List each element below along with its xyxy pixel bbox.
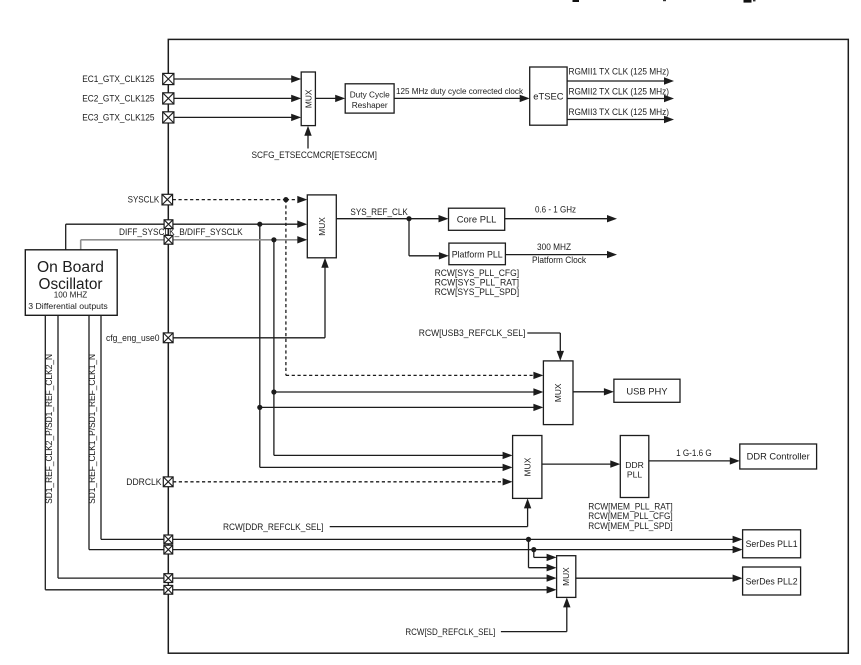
label SYSCLK [128, 193, 160, 204]
svg-text:MUX: MUX [553, 383, 563, 402]
svg-text:3 Differential outputs: 3 Differential outputs [28, 301, 108, 311]
label SCFG_ETSECCMCR[ETSECCM] [252, 149, 377, 160]
block Platform PLL [449, 243, 506, 265]
mux U2 system clock MUX [307, 195, 336, 258]
svg-text:DDR Controller: DDR Controller [747, 452, 810, 462]
svg-text:EC3_GTX_CLK125: EC3_GTX_CLK125 [82, 112, 154, 123]
block Core PLL [449, 208, 505, 230]
wire SYS_REF_CLK from MUX U2 to Core PLL [336, 215, 448, 222]
label 125 MHz duty cycle corrected clock [396, 87, 524, 96]
label 1 G-1.6 G [676, 447, 712, 458]
svg-text:RCW[DDR_REFCLK_SEL]: RCW[DDR_REFCLK_SEL] [223, 521, 323, 532]
svg-text:0.6 - 1 GHz: 0.6 - 1 GHz [535, 204, 576, 215]
wire cfg_eng_use0 select into MUX U2 [173, 258, 329, 338]
svg-text:1 G-1.6 G: 1 G-1.6 G [676, 447, 712, 458]
wire DDR PLL output to DDR Controller [649, 457, 740, 464]
cropped page-header text fragment [573, 0, 756, 3]
mux U1 eTSEC clock MUX [301, 72, 315, 126]
wire SD MUX to SerDes PLL2 [576, 575, 743, 582]
svg-text:SerDes PLL1: SerDes PLL1 [746, 539, 798, 549]
svg-text:PLL: PLL [627, 470, 643, 480]
pad SD1_REF_CLK2_P [164, 574, 173, 583]
wire SD1_REF_CLK1_N to SerDes PLL1 [89, 315, 743, 553]
label RCW[SD_REFCLK_SEL] [405, 626, 495, 637]
block USB PHY [614, 379, 680, 402]
pad DIFF_SYSCLK_B [164, 235, 173, 244]
svg-text:USB PHY: USB PHY [626, 385, 668, 396]
svg-text:125 MHz duty cycle corrected c: 125 MHz duty cycle corrected clock [396, 87, 524, 96]
label RCW[SYS_PLL_SPD] [435, 286, 519, 297]
label DIFF_SYSCLK_B/DIFF_SYSCLK [119, 226, 243, 237]
junction DIFF_SYSCLK tap to USB MUX [257, 405, 262, 410]
wire RCW[DDR_REFCLK_SEL] select into DDR MUX [330, 498, 532, 526]
label RGMII3 TX CLK (125 MHz) [569, 106, 670, 117]
svg-text:RCW[MEM_PLL_SPD]: RCW[MEM_PLL_SPD] [588, 520, 673, 531]
block DDR Controller [740, 444, 817, 469]
wire RGMII1 TX CLK output [567, 77, 674, 84]
svg-text:SD1_REF_CLK2_P/SD1_REF_CLK2_N: SD1_REF_CLK2_P/SD1_REF_CLK2_N [44, 354, 54, 504]
wire SYS_REF_CLK branch to Platform PLL [409, 219, 449, 260]
pad SD1_REF_CLK1_N [164, 545, 173, 554]
label 300 MHZ [537, 241, 571, 252]
label RGMII2 TX CLK (125 MHz) [569, 85, 670, 96]
junction DIFF_SYSCLK vertical tap [257, 222, 262, 227]
svg-text:SYSCLK: SYSCLK [128, 193, 160, 204]
chip boundary rectangle [168, 39, 848, 653]
label RCW[DDR_REFCLK_SEL] [223, 521, 323, 532]
label EC3_GTX_CLK125 [82, 112, 154, 123]
junction SYS_REF_CLK [406, 216, 411, 221]
wire RCW[USB3_REFCLK_SEL] select into USB MUX [527, 333, 564, 361]
wire DIFF_SYSCLK_B gray from oscillator to MUX U2 [81, 236, 308, 250]
label cfg_eng_use0 [106, 333, 160, 343]
wire MUX U1 to Duty Cycle Reshaper [315, 95, 345, 102]
block eTSEC [530, 67, 567, 125]
svg-text:EC2_GTX_CLK125: EC2_GTX_CLK125 [82, 93, 154, 104]
label Platform Clock [532, 254, 586, 265]
block SerDes PLL2 [743, 567, 801, 595]
wire DDRCLK dashed to DDR MUX [173, 478, 513, 485]
label RCW[SYS_PLL_RAT] [435, 277, 519, 288]
label 0.6 - 1 GHz [535, 204, 576, 215]
pad SYSCLK [162, 194, 173, 205]
wire DIFF_SYSCLK from oscillator to MUX U2 [66, 221, 308, 250]
svg-text:cfg_eng_use0: cfg_eng_use0 [106, 333, 160, 343]
mux U4 DDR reference clock MUX [513, 436, 542, 499]
svg-text:MUX: MUX [317, 217, 327, 236]
pad EC3_GTX_CLK125 [163, 112, 174, 123]
wire RGMII3 TX CLK output [567, 116, 674, 123]
svg-text:Reshaper: Reshaper [352, 100, 388, 110]
label DDRCLK [126, 477, 161, 487]
pad DDRCLK [163, 477, 173, 487]
svg-text:MUX: MUX [303, 89, 313, 108]
block SerDes PLL1 [743, 530, 801, 558]
wire USB MUX to USB PHY [573, 388, 614, 395]
svg-text:SerDes PLL2: SerDes PLL2 [746, 576, 798, 586]
svg-text:RGMII3 TX CLK (125 MHz): RGMII3 TX CLK (125 MHz) [569, 106, 670, 117]
wire SerDes ref clk1 tap to SD MUX [529, 539, 557, 571]
wire SD1_REF_CLK2_N to SD MUX [45, 315, 556, 593]
svg-text:300 MHZ: 300 MHZ [537, 241, 571, 252]
svg-text:MUX: MUX [522, 457, 532, 476]
svg-text:On Board: On Board [37, 259, 104, 276]
junction DIFF_SYSCLK_B vertical tap [271, 237, 276, 242]
wire EC1_GTX_CLK125 to MUX U1 [174, 75, 301, 82]
wire SYSCLK dashed to MUX U2 and USB MUX [173, 196, 544, 379]
svg-text:RCW[SYS_PLL_SPD]: RCW[SYS_PLL_SPD] [435, 286, 519, 297]
label EC1_GTX_CLK125 [82, 73, 154, 84]
label EC2_GTX_CLK125 [82, 93, 154, 104]
svg-text:DIFF_SYSCLK_B/DIFF_SYSCLK: DIFF_SYSCLK_B/DIFF_SYSCLK [119, 226, 243, 237]
label RCW[MEM_PLL_SPD] [588, 520, 673, 531]
pad SD1_REF_CLK1_P [164, 535, 173, 544]
block Duty Cycle Reshaper [345, 84, 394, 113]
pad EC1_GTX_CLK125 [163, 73, 174, 84]
wire DIFF_SYSCLK tap down to USB MUX and DDR MUX [260, 224, 544, 471]
wire EC2_GTX_CLK125 to MUX U1 [174, 95, 301, 102]
pad SD1_REF_CLK2_N [164, 585, 173, 594]
label SD1_REF_CLK2_P/SD1_REF_CLK2_N [44, 354, 54, 504]
pad EC2_GTX_CLK125 [163, 93, 174, 104]
label RCW[MEM_PLL_RAT] [588, 500, 673, 511]
wire Duty Cycle Reshaper to eTSEC [394, 95, 530, 102]
svg-text:DDRCLK: DDRCLK [126, 477, 161, 487]
svg-text:RGMII1 TX CLK (125 MHz): RGMII1 TX CLK (125 MHz) [569, 66, 670, 77]
svg-text:100 MHZ: 100 MHZ [54, 289, 88, 299]
label SD1_REF_CLK1_P/SD1_REF_CLK1_N [87, 354, 97, 504]
wire DDR MUX to DDR PLL [542, 460, 620, 467]
wire DIFF_SYSCLK_B tap down to USB MUX and DDR MUX [274, 240, 544, 459]
pad cfg_eng_use0 [163, 333, 173, 343]
svg-text:SYS_REF_CLK: SYS_REF_CLK [350, 206, 408, 217]
label RCW[USB3_REFCLK_SEL] [419, 327, 526, 338]
junction DIFF_SYSCLK_B tap to USB MUX [271, 389, 276, 394]
svg-text:EC1_GTX_CLK125: EC1_GTX_CLK125 [82, 73, 154, 84]
block On Board Oscillator [25, 250, 117, 315]
wire RCW[SD_REFCLK_SEL] select into SD MUX [501, 597, 571, 631]
svg-text:SCFG_ETSECCMCR[ETSECCM]: SCFG_ETSECCMCR[ETSECCM] [252, 149, 377, 160]
junction SerDes ref clk1n tap [531, 547, 536, 552]
svg-text:SD1_REF_CLK1_P/SD1_REF_CLK1_N: SD1_REF_CLK1_P/SD1_REF_CLK1_N [87, 354, 97, 504]
wire RGMII2 TX CLK output [567, 95, 674, 102]
svg-text:MUX: MUX [561, 567, 571, 586]
svg-text:Platform PLL: Platform PLL [452, 249, 503, 259]
svg-text:eTSEC: eTSEC [533, 90, 563, 101]
svg-text:RCW[SD_REFCLK_SEL]: RCW[SD_REFCLK_SEL] [405, 626, 495, 637]
wire Platform PLL output 300 MHZ [505, 251, 617, 258]
svg-text:DDR: DDR [625, 460, 644, 470]
wire SD1_REF_CLK1_P to SerDes PLL1 [101, 315, 743, 543]
svg-text:Platform Clock: Platform Clock [532, 254, 586, 265]
svg-text:Core PLL: Core PLL [457, 214, 497, 225]
label SYS_REF_CLK [350, 206, 408, 217]
junction on SYSCLK dashed wire [283, 197, 288, 202]
wire SCFG select into MUX U1 [304, 126, 311, 149]
mux U3 USB reference clock MUX [543, 361, 573, 425]
svg-text:RGMII2 TX CLK (125 MHz): RGMII2 TX CLK (125 MHz) [569, 85, 670, 96]
block DDR PLL [620, 436, 649, 498]
wire EC3_GTX_CLK125 to MUX U1 [174, 114, 301, 121]
pad DIFF_SYSCLK [164, 220, 173, 229]
label RCW[SYS_PLL_CFG] [435, 267, 519, 278]
mux U5 SerDes reference clock MUX [557, 556, 576, 598]
label RGMII1 TX CLK (125 MHz) [569, 66, 670, 77]
svg-text:RCW[USB3_REFCLK_SEL]: RCW[USB3_REFCLK_SEL] [419, 327, 526, 338]
wire SD1_REF_CLK2_P to SD MUX [58, 315, 557, 582]
junction SerDes ref clk1 tap [526, 537, 531, 542]
svg-text:Duty Cycle: Duty Cycle [350, 89, 390, 99]
wire SerDes ref clk1n tap to SD MUX [534, 550, 557, 562]
wire Core PLL output 0.6 - 1 GHz [505, 215, 617, 222]
label RCW[MEM_PLL_CFG] [588, 510, 673, 521]
